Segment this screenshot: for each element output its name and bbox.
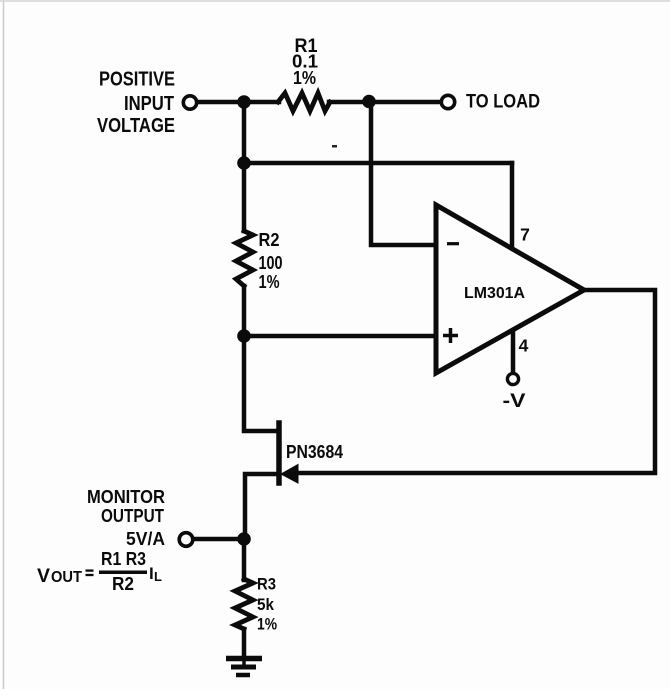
wire left rail lower (244, 286, 276, 431)
node dot monitor (237, 532, 251, 546)
svg-text:1%: 1% (259, 272, 280, 292)
wire monitor terminal (195, 537, 244, 542)
svg-text:PN3684: PN3684 (286, 441, 344, 462)
resistor R1 (278, 93, 330, 111)
resistor R2 (236, 231, 253, 286)
label positive input voltage (97, 68, 175, 138)
svg-text:VOLTAGE: VOLTAGE (97, 114, 175, 137)
terminal positive input (183, 96, 196, 109)
svg-text:R2: R2 (259, 230, 280, 250)
wire non-inverting input (244, 334, 434, 339)
wire inverting input (371, 102, 434, 245)
svg-text:-V: -V (503, 391, 526, 412)
transistor Q1 channel bar (276, 423, 282, 483)
wire R1 to TO LOAD terminal (329, 100, 440, 105)
svg-text:MONITOR: MONITOR (87, 486, 165, 507)
wire monitor node to R3 (242, 539, 247, 580)
svg-text:V: V (37, 565, 50, 587)
op-amp minus symbol (447, 242, 459, 245)
svg-text:5V/A: 5V/A (126, 528, 165, 549)
wire op-amp output loop (300, 290, 655, 473)
label monitor output 5V/A (87, 486, 165, 549)
svg-text:R1 R3: R1 R3 (101, 549, 146, 569)
terminal monitor output (179, 533, 193, 547)
svg-text:7: 7 (520, 225, 530, 245)
svg-text:OUT: OUT (51, 569, 82, 586)
label VOUT equation (37, 549, 162, 594)
node dot feedback (237, 156, 251, 170)
resistor R3 (235, 579, 253, 629)
svg-text:R3: R3 (257, 576, 276, 594)
scan speck (332, 145, 337, 148)
svg-text:100: 100 (259, 253, 283, 273)
svg-text:R2: R2 (112, 574, 134, 594)
wire feedback top (244, 161, 512, 166)
wire R3 to ground (242, 629, 247, 656)
wire left rail upper (242, 102, 247, 231)
wire pin 4 (511, 331, 516, 371)
label R2 value (259, 230, 283, 292)
svg-text:OUTPUT: OUTPUT (101, 505, 165, 526)
wire input terminal to R1 (198, 100, 279, 105)
svg-text:TO LOAD: TO LOAD (466, 92, 540, 113)
terminal -V (507, 373, 518, 384)
svg-text:1%: 1% (293, 67, 316, 88)
label R3 value (257, 576, 277, 634)
svg-text:LM301A: LM301A (464, 285, 525, 302)
scan edge left (3, 0, 5, 689)
wire pin 7 supply (510, 163, 515, 247)
ground (226, 659, 262, 676)
node dot R2 bottom (237, 329, 251, 343)
svg-text:L: L (154, 569, 162, 584)
transistor Q1 source lead (245, 474, 278, 539)
svg-text:INPUT: INPUT (124, 92, 174, 115)
scan edge top (0, 0, 670, 2)
transistor Q1 gate arrow (281, 465, 298, 484)
svg-text:4: 4 (519, 336, 529, 356)
node dot input rail (237, 95, 251, 109)
svg-text:5k: 5k (257, 596, 275, 614)
svg-text:POSITIVE: POSITIVE (99, 68, 175, 91)
terminal to load (441, 95, 454, 108)
op-amp plus symbol (443, 328, 458, 343)
label R1 value (292, 36, 318, 88)
op-amp U1 LM301A (436, 205, 584, 373)
node dot load side (362, 95, 376, 109)
svg-text:1%: 1% (257, 616, 277, 634)
